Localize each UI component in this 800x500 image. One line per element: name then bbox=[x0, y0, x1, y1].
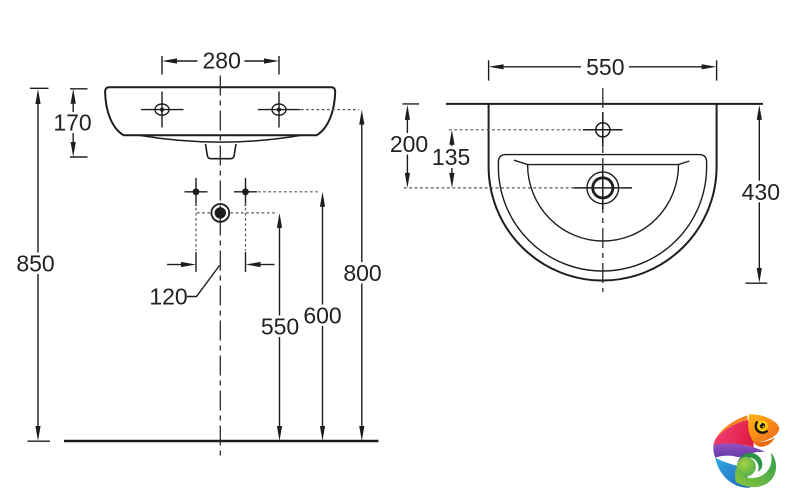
pink band bbox=[713, 420, 753, 447]
outer outline (top view) bbox=[489, 104, 717, 281]
dotted line bolt level to 600 dim bbox=[258, 191, 321, 193]
dim 430 bbox=[745, 105, 767, 283]
right fixing hole bbox=[258, 92, 301, 128]
dim 120 bbox=[167, 262, 275, 297]
dim 550 (right view) bbox=[489, 60, 717, 80]
dark green comma bbox=[739, 453, 762, 472]
dotted line drain level to 550 dim bbox=[197, 212, 210, 214]
dim 850 bbox=[28, 88, 51, 441]
svg-text:280: 280 bbox=[203, 48, 241, 74]
left bolt hole dot bbox=[185, 178, 208, 206]
right bolt hole dot bbox=[234, 178, 257, 206]
svg-text:430: 430 bbox=[742, 179, 780, 205]
dim 550 (left view) bbox=[277, 213, 282, 441]
drain hole (left view) bbox=[211, 204, 229, 222]
tail center ball bbox=[737, 457, 756, 476]
svg-text:200: 200 bbox=[390, 131, 428, 157]
dim 200 bbox=[403, 104, 420, 188]
faucet hole bbox=[583, 112, 623, 148]
svg-text:550: 550 bbox=[586, 54, 624, 80]
eye bbox=[756, 420, 768, 432]
svg-text:550: 550 bbox=[261, 314, 299, 340]
purple thorns bbox=[737, 457, 745, 462]
head orange bbox=[748, 414, 779, 442]
center line (right view) bbox=[602, 88, 604, 292]
left fixing hole bbox=[141, 92, 184, 128]
bowl bbox=[514, 160, 690, 241]
dim 280 bbox=[162, 56, 279, 75]
wall line bbox=[446, 103, 763, 105]
jaw wedge bbox=[753, 438, 775, 447]
svg-text:135: 135 bbox=[432, 144, 470, 170]
dotted drain level line bbox=[404, 187, 574, 189]
dim 600 bbox=[320, 192, 325, 441]
basin outline (left view) bbox=[105, 87, 335, 135]
drain (top view) bbox=[574, 166, 632, 209]
blue band bbox=[715, 458, 750, 488]
dim 135 bbox=[449, 130, 454, 188]
chameleon logo bbox=[713, 414, 779, 487]
svg-text:120: 120 bbox=[149, 284, 187, 310]
dim 170 bbox=[70, 89, 88, 157]
dotted extension to 800 dim bbox=[301, 109, 359, 111]
svg-text:850: 850 bbox=[16, 251, 54, 277]
floor line bbox=[64, 440, 379, 442]
svg-text:170: 170 bbox=[53, 110, 91, 136]
purple band + swirl bbox=[713, 443, 765, 457]
inner rim bbox=[498, 155, 706, 271]
svg-text:600: 600 bbox=[303, 302, 341, 328]
green tail bbox=[735, 452, 776, 487]
drain spout bbox=[206, 144, 237, 159]
basin apron curve bbox=[139, 135, 302, 142]
solid witness ticks for 120 bbox=[195, 252, 197, 272]
dotted faucet level line bbox=[449, 129, 584, 131]
dotted witness from bolt dots down bbox=[195, 203, 197, 252]
neck orange band bbox=[716, 415, 747, 438]
svg-text:800: 800 bbox=[343, 260, 381, 286]
center line (left view) bbox=[219, 76, 221, 458]
dim 800 bbox=[359, 110, 364, 441]
